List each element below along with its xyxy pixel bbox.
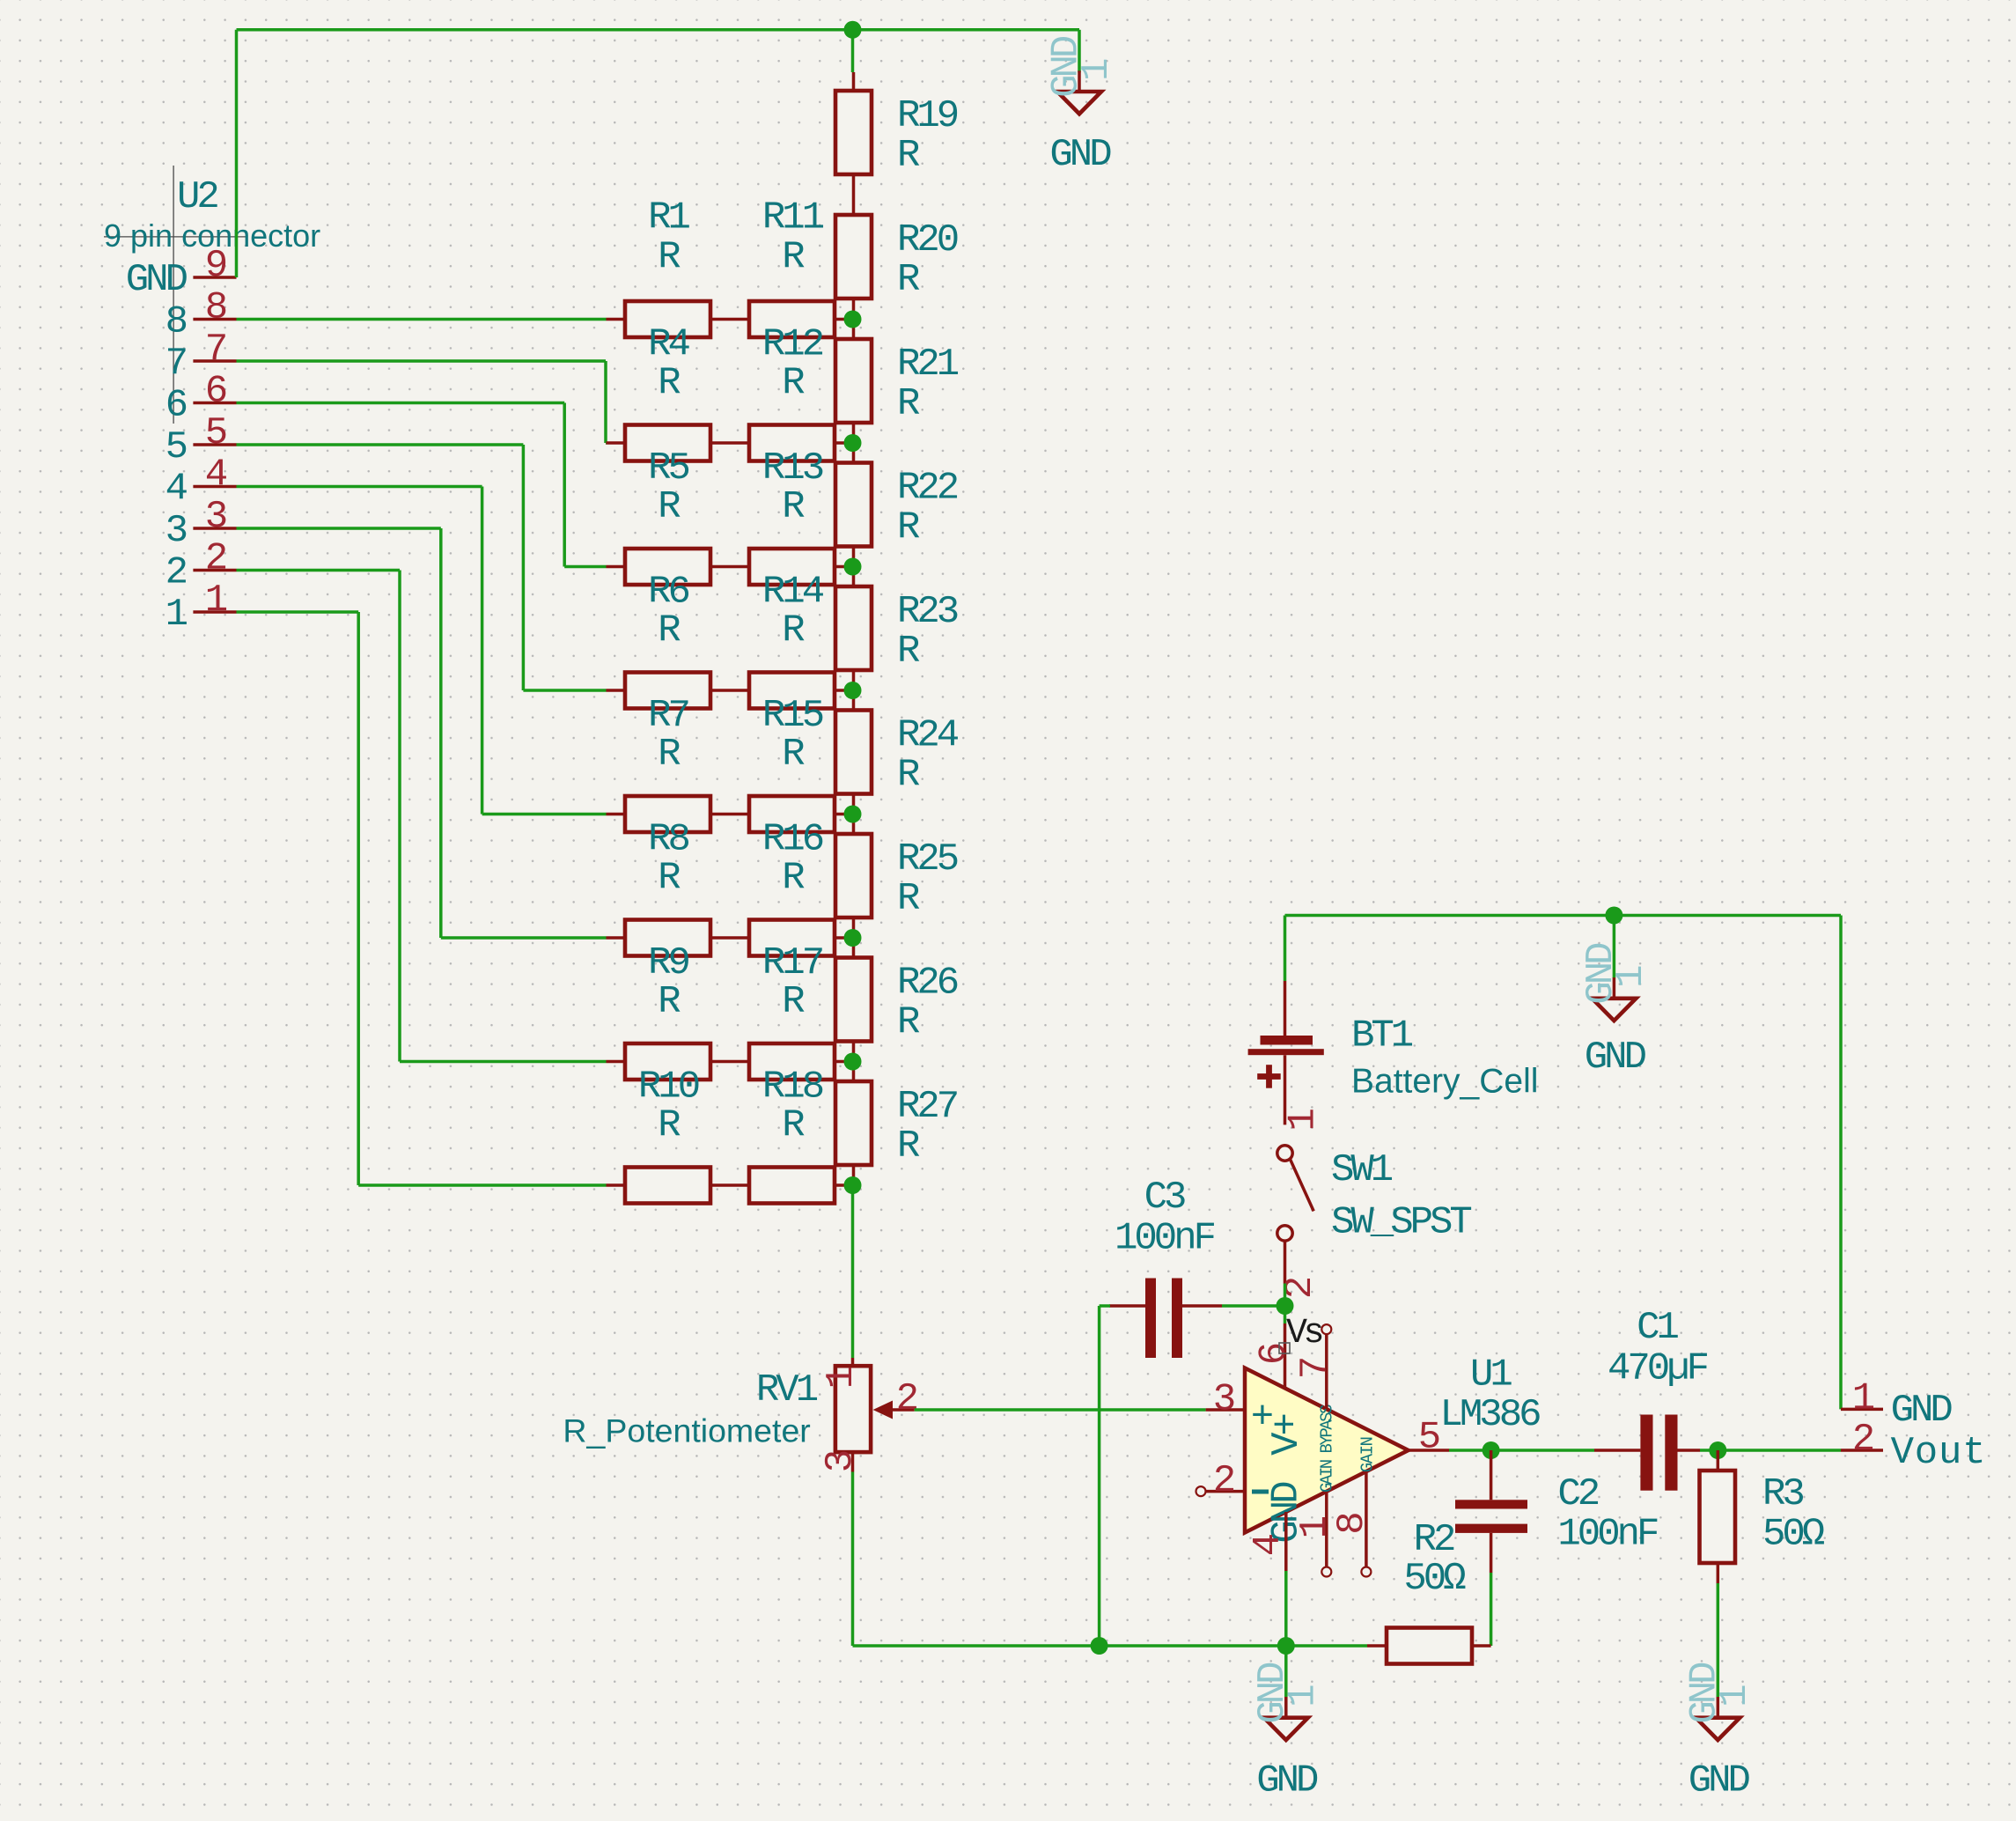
svg-text:R: R — [782, 1104, 805, 1148]
svg-text:1: 1 — [820, 1367, 864, 1389]
svg-text:R8: R8 — [648, 818, 688, 862]
svg-text:8: 8 — [1330, 1514, 1374, 1535]
svg-text:5: 5 — [1418, 1416, 1439, 1460]
junction R3 node — [1709, 1441, 1726, 1459]
svg-text:R: R — [897, 382, 920, 426]
junction row7 — [844, 1053, 862, 1071]
wire pin8 to row1 — [237, 318, 607, 321]
wire ground tap battery rail — [1613, 916, 1616, 978]
U2 pin 6 — [166, 370, 237, 428]
svg-text:SW1: SW1 — [1331, 1148, 1393, 1192]
svg-text:R: R — [782, 485, 805, 529]
resistor R8 — [625, 796, 710, 901]
svg-text:R: R — [897, 134, 920, 178]
resistor R7 — [625, 673, 710, 778]
svg-text:4: 4 — [205, 453, 227, 498]
svg-text:R18: R18 — [762, 1065, 823, 1110]
junction row5 — [844, 806, 862, 823]
connector J pin 2 Vout — [1841, 1418, 1986, 1475]
svg-text:4: 4 — [1247, 1534, 1291, 1556]
resistor R16 — [749, 796, 835, 901]
svg-text:4: 4 — [166, 468, 188, 512]
battery BT1 labels — [1351, 1014, 1538, 1101]
svg-text:R: R — [658, 362, 681, 406]
op-amp U1 pin 4 — [1247, 1512, 1291, 1571]
svg-text:1: 1 — [1075, 59, 1119, 81]
svg-text:R14: R14 — [762, 571, 824, 615]
resistor R22 vertical 2R — [835, 463, 958, 550]
wire pin2 to row8 — [237, 612, 607, 1185]
wire to ground top right — [1078, 30, 1081, 73]
svg-text:R: R — [782, 236, 805, 280]
svg-text:100nF: 100nF — [1115, 1217, 1215, 1261]
svg-text:R: R — [658, 485, 681, 529]
resistor R6 — [625, 549, 710, 653]
resistor R24 vertical 2R — [835, 711, 959, 798]
svg-text:7: 7 — [1293, 1359, 1337, 1379]
svg-text:9: 9 — [205, 244, 226, 288]
wire R3 to ground — [1717, 1583, 1720, 1697]
resistor R9 — [625, 920, 710, 1025]
connector U2 anchor crosshair — [104, 166, 247, 424]
svg-text:GND: GND — [126, 258, 188, 302]
svg-text:R2: R2 — [1414, 1518, 1454, 1562]
svg-text:C3: C3 — [1144, 1176, 1185, 1220]
svg-text:R21: R21 — [897, 343, 959, 387]
resistor R2 — [1367, 1518, 1491, 1664]
junction bottom rail C3 — [1091, 1637, 1108, 1655]
svg-text:5: 5 — [205, 411, 226, 455]
resistor R13 — [749, 425, 835, 530]
svg-text:U1: U1 — [1470, 1353, 1512, 1397]
svg-text:R: R — [658, 980, 681, 1024]
svg-text:R: R — [897, 258, 920, 302]
svg-text:5: 5 — [166, 425, 187, 469]
svg-text:8: 8 — [205, 286, 226, 330]
U2 pin 8 — [166, 286, 237, 344]
resistor R26 vertical 2R — [835, 958, 958, 1045]
U2 pin 1 — [166, 579, 237, 637]
capacitor C3 — [1109, 1176, 1222, 1358]
svg-text:R19: R19 — [897, 94, 958, 138]
wire wiper to op-amp input — [915, 1408, 1206, 1412]
svg-text:BT1: BT1 — [1351, 1014, 1413, 1058]
svg-text:GND: GND — [1585, 1036, 1646, 1080]
U2 pin 5 — [166, 411, 237, 469]
wire top rail to ladder and GND — [237, 28, 1080, 32]
svg-text:C1: C1 — [1637, 1306, 1678, 1350]
wire pin8 to row2 — [237, 361, 607, 443]
svg-text:C2: C2 — [1557, 1472, 1598, 1516]
svg-text:R25: R25 — [897, 837, 958, 881]
net label Vs — [1279, 1314, 1321, 1353]
resistor row8 right — [749, 1168, 835, 1204]
svg-text:R12: R12 — [762, 323, 823, 367]
row6 resistor leads — [607, 936, 853, 940]
resistor row8 left — [625, 1168, 710, 1204]
svg-text:R: R — [782, 980, 805, 1024]
ground GND battery rail — [1579, 943, 1653, 1080]
svg-text:R: R — [897, 1124, 920, 1169]
resistor R11 label — [762, 196, 824, 280]
potentiometer RV1 labels — [563, 1368, 817, 1449]
resistor R17 — [749, 920, 835, 1025]
wire GND pin9 riser to top rail — [235, 30, 239, 277]
wire right rail down — [1839, 916, 1843, 1410]
op-amp U1 labels — [1439, 1353, 1540, 1438]
op-amp U1 pin 2 — [1196, 1459, 1246, 1503]
svg-text:R: R — [658, 236, 681, 280]
svg-text:R5: R5 — [648, 446, 688, 490]
svg-text:2: 2 — [1213, 1459, 1234, 1503]
svg-text:R1: R1 — [648, 196, 689, 240]
op-amp U1 pin 1 — [1293, 1492, 1337, 1577]
resistor R21 vertical 2R — [835, 339, 959, 426]
svg-text:GND: GND — [1256, 1759, 1318, 1803]
svg-text:R13: R13 — [762, 446, 823, 490]
wire C3 right to Vplus — [1222, 1304, 1285, 1308]
resistor R10 — [625, 1043, 710, 1148]
connector J pin 1 GND — [1841, 1377, 1952, 1434]
svg-text:2: 2 — [1852, 1418, 1873, 1462]
svg-text:Vout: Vout — [1891, 1431, 1987, 1475]
svg-text:6: 6 — [205, 370, 226, 414]
wire battery riser — [1284, 916, 1287, 982]
U2 pin 4 — [166, 453, 237, 512]
svg-text:R: R — [658, 733, 681, 777]
svg-text:3: 3 — [166, 509, 187, 553]
svg-text:50Ω: 50Ω — [1403, 1557, 1466, 1601]
svg-text:R20: R20 — [897, 218, 958, 262]
op-amp U1 pin 6 — [1253, 1323, 1297, 1389]
svg-text:R: R — [782, 609, 805, 653]
svg-text:R26: R26 — [897, 962, 958, 1006]
svg-text:1: 1 — [1713, 1685, 1757, 1707]
ground GND R3 — [1683, 1662, 1757, 1803]
resistor R5 — [625, 425, 710, 530]
svg-text:100nF: 100nF — [1557, 1513, 1658, 1557]
junction row4 — [844, 682, 862, 699]
svg-text:470µF: 470µF — [1608, 1347, 1708, 1391]
wire pin7 to row3 — [237, 403, 607, 567]
op-amp U1 pin 7 — [1293, 1324, 1337, 1409]
svg-text:R: R — [782, 857, 805, 901]
junction top rail / ladder — [844, 21, 862, 39]
wire C3 left — [1100, 1304, 1110, 1308]
svg-text:R15: R15 — [762, 694, 823, 738]
svg-text:V+: V+ — [1265, 1415, 1309, 1456]
capacitor C2 — [1455, 1450, 1658, 1573]
svg-text:1: 1 — [1609, 966, 1653, 988]
junction bottom rail pin4 — [1277, 1637, 1295, 1655]
wire battery top rail — [1285, 914, 1842, 918]
svg-text:R: R — [897, 1001, 920, 1045]
svg-text:1: 1 — [1282, 1110, 1326, 1132]
resistor R20 vertical 2R — [835, 215, 958, 302]
svg-text:1: 1 — [1852, 1377, 1874, 1421]
wire row8 to potentiometer — [851, 1185, 855, 1358]
svg-text:GAIN BYPASS: GAIN BYPASS — [1317, 1404, 1336, 1493]
row3 resistor leads — [607, 565, 853, 569]
resistor R15 — [749, 673, 835, 778]
svg-text:R: R — [658, 857, 681, 901]
wire bottom rail — [853, 1644, 1368, 1648]
svg-text:R17: R17 — [762, 941, 822, 985]
row4 resistor leads — [607, 689, 853, 692]
row5 resistor leads — [607, 813, 853, 816]
junction row8 — [844, 1176, 862, 1194]
svg-text:7: 7 — [166, 342, 186, 386]
resistor R1 label — [648, 196, 689, 280]
wire pin4 to bottom rail — [1284, 1571, 1288, 1646]
svg-text:1: 1 — [205, 579, 227, 623]
svg-text:GAIN: GAIN — [1357, 1437, 1377, 1472]
svg-text:R: R — [897, 630, 920, 674]
switch SW1 — [1277, 1110, 1326, 1300]
wire Vplus to pin6 — [1284, 1306, 1287, 1323]
wire switch to Vplus node — [1284, 1284, 1287, 1307]
op-amp U1 pin 5 output — [1409, 1416, 1449, 1460]
junction battery rail / ground tap — [1605, 907, 1622, 925]
wire C3 drop to bottom rail — [1098, 1306, 1101, 1646]
svg-text:50Ω: 50Ω — [1762, 1513, 1825, 1557]
row7 resistor leads — [607, 1060, 853, 1064]
svg-text:Battery_Cell: Battery_Cell — [1351, 1062, 1538, 1100]
wire output node — [1449, 1449, 1594, 1452]
potentiometer RV1 — [819, 1358, 917, 1472]
svg-text:R6: R6 — [648, 571, 688, 615]
U2 pin 7 — [166, 328, 237, 386]
connector U2 reference U2 — [177, 175, 217, 219]
resistor R14 — [749, 549, 835, 653]
wire pin4 to row6 — [237, 528, 607, 938]
svg-text:8: 8 — [166, 300, 187, 344]
svg-text:R: R — [658, 609, 681, 653]
resistor R12 — [749, 301, 835, 406]
connector U2 value 9 pin connector — [104, 217, 320, 254]
resistor R23 vertical 2R — [835, 586, 958, 674]
ground GND op-amp pin4 — [1251, 1662, 1325, 1803]
svg-text:R24: R24 — [897, 714, 959, 758]
resistor R27 vertical 2R — [835, 1081, 957, 1169]
junction row1 — [844, 311, 862, 328]
wire C1 to Vout — [1700, 1449, 1841, 1452]
svg-text:RV1: RV1 — [756, 1368, 818, 1412]
ground GND top right — [1044, 36, 1118, 177]
capacitor C1 — [1594, 1306, 1708, 1491]
svg-text:2: 2 — [205, 537, 226, 581]
svg-text:R9: R9 — [648, 941, 688, 985]
resistor R4 — [625, 301, 710, 406]
wire pin4 ground tap — [1284, 1646, 1288, 1697]
svg-text:3: 3 — [1213, 1378, 1234, 1422]
svg-text:2: 2 — [166, 551, 187, 595]
op-amp U1 LM386 body — [1245, 1368, 1409, 1544]
wire pin6 to row4 — [237, 445, 607, 690]
svg-text:R22: R22 — [897, 467, 958, 511]
battery BT1 — [1248, 981, 1324, 1124]
svg-text:R: R — [897, 506, 920, 550]
U2 pin 2 — [166, 537, 237, 595]
svg-text:R_Potentiometer: R_Potentiometer — [563, 1412, 810, 1449]
svg-text:R: R — [782, 733, 805, 777]
op-amp U1 pin 3 — [1206, 1378, 1245, 1422]
svg-text:R4: R4 — [648, 323, 689, 367]
svg-text:3: 3 — [819, 1451, 863, 1472]
row8 resistor leads — [607, 1183, 853, 1187]
svg-text:GND: GND — [1049, 133, 1111, 177]
U2 pin 3 — [166, 495, 237, 553]
row2 resistor leads — [607, 441, 853, 445]
resistor R25 vertical 2R — [835, 834, 958, 921]
wire pin3 to row7 — [237, 571, 607, 1062]
svg-text:R3: R3 — [1762, 1472, 1803, 1516]
svg-text:U2: U2 — [177, 175, 217, 219]
ladder spine wire — [853, 30, 854, 1185]
wire C2 to bottom rail — [1490, 1573, 1493, 1646]
svg-text:LM386: LM386 — [1439, 1393, 1540, 1437]
svg-text:GND: GND — [1689, 1759, 1750, 1803]
svg-text:7: 7 — [205, 328, 225, 372]
resistor R3 — [1700, 1450, 1825, 1583]
svg-text:R23: R23 — [897, 590, 958, 634]
junction row2 — [844, 434, 862, 452]
svg-text:GND: GND — [1891, 1389, 1953, 1433]
svg-text:3: 3 — [205, 495, 226, 539]
op-amp U1 pin 8 — [1330, 1471, 1374, 1577]
svg-text:R16: R16 — [762, 818, 823, 862]
svg-text:R11: R11 — [762, 196, 824, 240]
U2 pin 9 — [126, 244, 237, 302]
wire pin5 to row5 — [237, 487, 607, 815]
svg-text:R: R — [897, 877, 920, 921]
resistor R19 vertical 2R — [835, 91, 958, 178]
svg-text:R: R — [782, 362, 805, 406]
svg-text:R27: R27 — [897, 1085, 957, 1129]
svg-text:6: 6 — [166, 384, 187, 428]
junction output node — [1483, 1441, 1500, 1459]
resistor R18 — [749, 1043, 835, 1148]
svg-text:R: R — [897, 754, 920, 798]
svg-text:R7: R7 — [648, 694, 688, 738]
svg-text:1: 1 — [166, 593, 188, 637]
wire potentiometer bottom to rail — [851, 1472, 855, 1647]
svg-text:R10: R10 — [638, 1065, 699, 1110]
junction Vplus node — [1277, 1297, 1294, 1315]
row1 resistor leads — [607, 318, 853, 321]
svg-text:Vs: Vs — [1286, 1314, 1322, 1353]
junction row6 — [844, 929, 862, 947]
switch SW1 labels — [1331, 1148, 1471, 1245]
svg-text:1: 1 — [1282, 1685, 1326, 1707]
svg-text:SW_SPST: SW_SPST — [1331, 1200, 1471, 1244]
svg-text:R: R — [658, 1104, 681, 1148]
svg-text:2: 2 — [896, 1377, 917, 1421]
junction row3 — [844, 558, 862, 576]
